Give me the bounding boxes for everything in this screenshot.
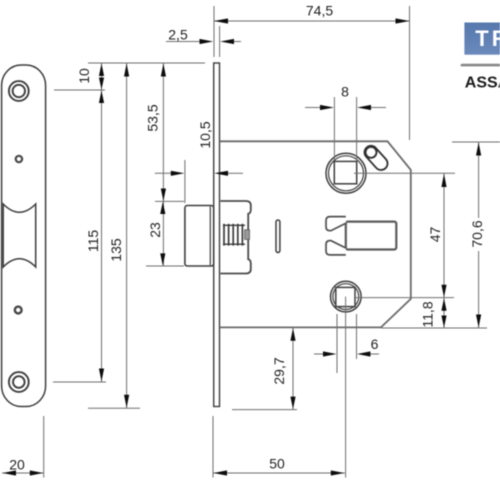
svg-text:8: 8 [341, 84, 349, 100]
svg-text:10,5: 10,5 [197, 121, 213, 148]
svg-text:ASSA AB: ASSA AB [465, 75, 500, 92]
svg-text:29,7: 29,7 [271, 357, 287, 384]
svg-text:6: 6 [371, 336, 379, 352]
svg-text:50: 50 [269, 456, 285, 472]
svg-text:23: 23 [147, 222, 163, 238]
svg-text:11,8: 11,8 [420, 301, 436, 327]
svg-text:2,5: 2,5 [168, 27, 188, 43]
svg-text:47: 47 [427, 227, 443, 243]
svg-text:70,6: 70,6 [469, 220, 485, 247]
svg-text:20: 20 [9, 457, 25, 473]
svg-text:53,5: 53,5 [145, 104, 161, 131]
svg-text:74,5: 74,5 [306, 3, 333, 19]
svg-text:10: 10 [76, 68, 92, 84]
svg-text:135: 135 [108, 238, 124, 262]
svg-text:115: 115 [85, 230, 101, 253]
svg-text:TRI: TRI [475, 26, 500, 51]
